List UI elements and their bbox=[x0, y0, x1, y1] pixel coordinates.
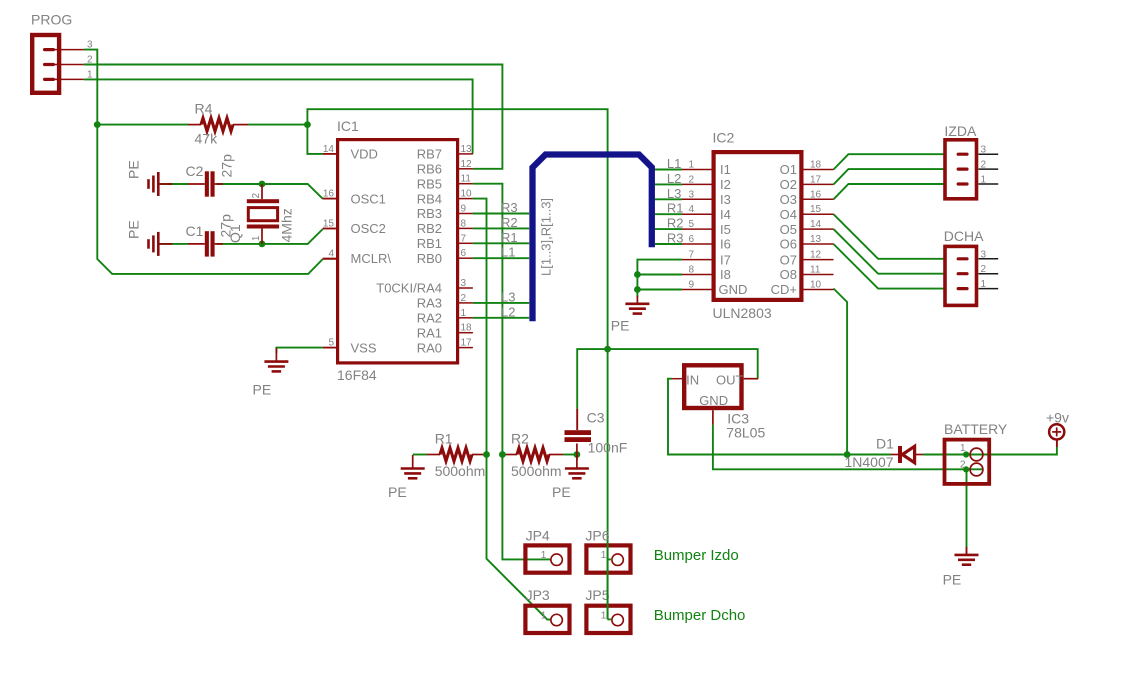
svg-text:L[1..3],R[1..3]: L[1..3],R[1..3] bbox=[539, 198, 554, 276]
svg-text:VSS: VSS bbox=[351, 340, 377, 355]
wire battery pin2 to PE ground bbox=[966, 469, 968, 555]
IC2 pin 6 I6 bbox=[682, 234, 731, 252]
svg-text:2: 2 bbox=[688, 174, 694, 185]
jumper JP4 box bbox=[525, 545, 569, 572]
crystal Q1 pin2 label bbox=[251, 193, 262, 199]
supply +9v symbol bbox=[1049, 424, 1064, 439]
svg-text:3: 3 bbox=[461, 278, 467, 289]
svg-text:I7: I7 bbox=[720, 252, 731, 267]
wire net RB5 pin11 down to R2 junction and JP4 bbox=[473, 184, 551, 560]
svg-text:JP3: JP3 bbox=[526, 587, 550, 603]
node label L1 at IC2 side bbox=[667, 156, 681, 171]
svg-text:I2: I2 bbox=[720, 177, 731, 192]
svg-text:1: 1 bbox=[87, 69, 93, 80]
wire net L1 (RB0 pin6 to bus) bbox=[473, 257, 529, 259]
wire O6 (pin13) to DCHA 1 bbox=[834, 244, 946, 289]
wire net L2 (RA2 pin1 to bus) bbox=[473, 317, 529, 319]
wire net VSS pin5 to ground bbox=[276, 348, 336, 353]
svg-text:C2: C2 bbox=[186, 163, 204, 179]
wire C3 bottom stub and ground stem bbox=[576, 444, 578, 461]
IC1 pin 5 VSS bbox=[323, 338, 377, 356]
wire O1 (pin18) to IZDA 3 bbox=[834, 154, 946, 169]
resistor R1 name bbox=[435, 431, 453, 447]
diode D1 name bbox=[876, 436, 894, 452]
svg-text:9: 9 bbox=[461, 204, 467, 215]
connector DCHA box bbox=[945, 246, 977, 305]
IC2 pin 15 O4 bbox=[780, 204, 834, 222]
wire net R1 (RB1 pin7 to bus) bbox=[473, 242, 529, 244]
svg-text:10: 10 bbox=[810, 280, 822, 291]
ground PE (C2) bbox=[149, 172, 173, 196]
svg-text:OUT: OUT bbox=[716, 372, 744, 387]
IC2 pin 16 O3 bbox=[780, 189, 834, 207]
IC3 pin IN bbox=[672, 373, 699, 388]
svg-text:JP5: JP5 bbox=[585, 587, 609, 603]
svg-text:I5: I5 bbox=[720, 222, 731, 237]
IC1 pin 18 RA1 bbox=[417, 323, 473, 341]
IC1 pin 1 RA2 bbox=[417, 308, 473, 326]
node label R1 at IC2 side bbox=[667, 201, 684, 216]
wire net PROG pin1 to RB7 (pin13) bbox=[84, 79, 473, 153]
wire net L3 bus to IC2 pin 3 bbox=[655, 198, 682, 200]
wire R1 left lead to ground bbox=[413, 454, 440, 456]
IC3 pin GND bbox=[699, 393, 728, 408]
svg-text:PE: PE bbox=[611, 318, 630, 334]
svg-text:L3: L3 bbox=[667, 186, 681, 201]
ground PE (battery) bbox=[955, 547, 979, 565]
svg-text:Bumper Dcho: Bumper Dcho bbox=[654, 607, 746, 624]
svg-text:O2: O2 bbox=[780, 177, 797, 192]
IC2 pin 12 O7 bbox=[780, 250, 834, 268]
jumper JP6 pin 1 bbox=[601, 550, 607, 561]
svg-text:PE: PE bbox=[943, 572, 962, 588]
ground PE (R2) bbox=[565, 455, 589, 478]
svg-text:2: 2 bbox=[87, 55, 93, 66]
wire net R3 (RB3 pin9 to bus) bbox=[473, 213, 529, 215]
resistor R1 value 500ohm bbox=[435, 463, 486, 479]
wire net VCC: R4 left lead from junction bbox=[97, 124, 201, 126]
crystal Q1 pin1 label bbox=[251, 235, 262, 241]
IC1 pin 10 RB4 bbox=[417, 189, 473, 207]
svg-text:O7: O7 bbox=[780, 252, 797, 267]
connector IZDA pad 3 bbox=[957, 145, 999, 156]
svg-text:4: 4 bbox=[688, 204, 694, 215]
IC1 pin 7 RB1 bbox=[417, 233, 473, 251]
IC2 pin 9 GND bbox=[682, 280, 747, 298]
svg-text:I1: I1 bbox=[720, 162, 731, 177]
junction dot VCC at R4 right bbox=[304, 121, 311, 128]
connector IZDA label bbox=[944, 123, 977, 139]
svg-text:500ohm: 500ohm bbox=[435, 463, 486, 479]
svg-text:100nF: 100nF bbox=[588, 440, 628, 456]
svg-text:O3: O3 bbox=[780, 192, 797, 207]
IC2 pin 5 I5 bbox=[682, 219, 731, 237]
IC1 value label 16F84 bbox=[337, 367, 377, 383]
svg-text:10: 10 bbox=[461, 189, 473, 200]
svg-text:I4: I4 bbox=[720, 207, 731, 222]
svg-text:11: 11 bbox=[810, 265, 821, 276]
jumper JP3 pin 1 bbox=[541, 610, 547, 621]
crystal Q1 symbol bbox=[247, 184, 279, 244]
wire net VCC: C3 top to OUT of IC3 bbox=[577, 349, 758, 430]
IC1 pin 4 MCLR\ bbox=[323, 248, 392, 266]
svg-text:R2: R2 bbox=[511, 431, 529, 447]
IC1 pin 17 RA0 bbox=[417, 338, 473, 356]
svg-text:14: 14 bbox=[810, 219, 822, 230]
resistor R2 value 500ohm bbox=[511, 463, 562, 479]
wire net VBAT: IC3 IN down and right to D1 bbox=[668, 379, 891, 455]
svg-text:R3: R3 bbox=[667, 231, 684, 246]
wire O4 (pin15) to DCHA 3 bbox=[834, 214, 946, 259]
node label L3 at IC1 side bbox=[501, 289, 515, 304]
node label R2 at IC1 side bbox=[501, 215, 518, 230]
diode D1 (1N4007) bbox=[898, 446, 915, 463]
svg-text:L1: L1 bbox=[501, 245, 515, 260]
ground PE (C2) label bbox=[126, 160, 142, 179]
svg-text:PROG: PROG bbox=[31, 12, 72, 28]
wire IC2 pins 7,8,9 to ground bbox=[637, 260, 682, 297]
jumper JP5 name bbox=[585, 587, 609, 603]
supply +9v label bbox=[1046, 409, 1069, 425]
svg-text:1: 1 bbox=[461, 308, 467, 319]
svg-text:I3: I3 bbox=[720, 192, 731, 207]
wire R2 right lead to C3 node bbox=[549, 454, 577, 456]
capacitor C3 bbox=[565, 430, 592, 442]
IC1 pin 9 RB3 bbox=[417, 204, 473, 222]
svg-text:11: 11 bbox=[461, 174, 472, 185]
svg-text:JP4: JP4 bbox=[526, 527, 550, 543]
svg-text:R3: R3 bbox=[501, 200, 518, 215]
IC2 pin 18 O1 bbox=[780, 160, 834, 178]
wire net L3 (RA3 pin2 to bus) bbox=[473, 302, 529, 304]
svg-text:7: 7 bbox=[461, 233, 467, 244]
jumper JP6 name bbox=[585, 527, 609, 543]
IC2 value label ULN2803 bbox=[713, 305, 772, 321]
svg-text:I6: I6 bbox=[720, 237, 731, 252]
wire net R2 (RB2 pin8 to bus) bbox=[473, 227, 529, 229]
wire net VCC: R4 right to VDD pin14 and down to JP6/JP5 bbox=[307, 109, 611, 619]
svg-text:12: 12 bbox=[461, 159, 473, 170]
svg-text:1: 1 bbox=[601, 610, 607, 621]
wire net R3 bus to IC2 pin 6 bbox=[655, 243, 682, 245]
svg-text:IC1: IC1 bbox=[337, 118, 359, 134]
svg-text:5: 5 bbox=[688, 219, 694, 230]
connector PROG box bbox=[32, 35, 59, 93]
svg-text:RB5: RB5 bbox=[417, 176, 442, 191]
jumper JP4 pin 1 bbox=[541, 550, 547, 561]
node label R2 at IC2 side bbox=[667, 216, 684, 231]
svg-text:13: 13 bbox=[810, 234, 822, 245]
svg-text:12: 12 bbox=[810, 250, 822, 261]
svg-text:I8: I8 bbox=[720, 267, 731, 282]
resistor R4 value 47k bbox=[195, 131, 219, 147]
wire net L2 bus to IC2 pin 2 bbox=[655, 183, 682, 185]
node label R3 at IC1 side bbox=[501, 200, 518, 215]
svg-text:RB3: RB3 bbox=[417, 206, 442, 221]
svg-text:R1: R1 bbox=[667, 201, 684, 216]
IC1 pin 2 RA3 bbox=[417, 293, 473, 311]
IC3 pin OUT bbox=[716, 372, 744, 387]
svg-text:O5: O5 bbox=[780, 222, 797, 237]
crystal Q1 name bbox=[227, 224, 243, 243]
wire net RB4 pin10 down to R1 junction and JP3 bbox=[473, 199, 551, 620]
svg-text:CD+: CD+ bbox=[771, 282, 797, 297]
IC2 pin 3 I3 bbox=[682, 189, 731, 207]
junction dot R2 left bbox=[499, 451, 506, 458]
svg-text:15: 15 bbox=[810, 204, 822, 215]
ground PE (R2) label bbox=[552, 484, 571, 500]
IC1 pin 8 RB2 bbox=[417, 218, 473, 236]
connector BATTERY pad 2 bbox=[960, 459, 983, 476]
svg-text:2: 2 bbox=[981, 160, 987, 171]
wire net PROG pin2 to RB6 (pin12) bbox=[84, 65, 503, 169]
wire VCC vertical through JP6 bbox=[607, 543, 609, 619]
IC2 name label bbox=[713, 130, 735, 146]
svg-text:RB6: RB6 bbox=[417, 162, 442, 177]
svg-text:1: 1 bbox=[981, 279, 987, 290]
jumper JP3 box bbox=[525, 606, 569, 633]
IC2 pin 13 O6 bbox=[780, 234, 834, 252]
resistor R2 bbox=[517, 448, 549, 461]
junction dot R1 right bbox=[483, 451, 490, 458]
regulator IC3 box (78L05) bbox=[684, 365, 741, 408]
svg-text:O1: O1 bbox=[780, 162, 797, 177]
IC1 pin 12 RB6 bbox=[417, 159, 473, 177]
ground PE (R1) bbox=[401, 455, 425, 478]
resistor R1 bbox=[440, 448, 472, 461]
svg-text:RA3: RA3 bbox=[417, 296, 442, 311]
svg-text:RA0: RA0 bbox=[417, 340, 442, 355]
wire net GND: IC3 GND pin to battery pin 2 bbox=[713, 410, 983, 469]
svg-text:MCLR\: MCLR\ bbox=[351, 251, 392, 266]
resistor R2 name bbox=[511, 431, 529, 447]
svg-text:VDD: VDD bbox=[351, 147, 378, 162]
svg-text:L1: L1 bbox=[667, 156, 681, 171]
svg-text:RA1: RA1 bbox=[417, 325, 442, 340]
ground PE (VSS) bbox=[264, 348, 288, 371]
ground PE (IC2) label bbox=[611, 318, 630, 334]
node label L2 at IC2 side bbox=[667, 171, 681, 186]
svg-text:7: 7 bbox=[688, 250, 694, 261]
IC1 pin 16 OSC1 bbox=[323, 189, 386, 207]
wire net OSC2: ground-C1-crystal1-pin15 bbox=[158, 229, 336, 244]
IC2 pin 11 O8 bbox=[780, 265, 834, 283]
svg-text:Q1: Q1 bbox=[227, 224, 243, 243]
node label R1 at IC1 side bbox=[501, 230, 518, 245]
svg-text:T0CKI/RA4: T0CKI/RA4 bbox=[376, 281, 442, 296]
svg-text:4: 4 bbox=[328, 248, 334, 259]
IC1 pin 3 T0CKI/RA4 bbox=[376, 278, 473, 296]
svg-text:1: 1 bbox=[251, 235, 262, 241]
node label L3 at IC2 side bbox=[667, 186, 681, 201]
capacitor C1 bbox=[188, 231, 223, 256]
ground PE (C1) bbox=[149, 232, 173, 256]
IC1 pin 15 OSC2 bbox=[323, 219, 386, 237]
svg-text:RB4: RB4 bbox=[417, 191, 442, 206]
svg-text:8: 8 bbox=[461, 218, 467, 229]
svg-text:3: 3 bbox=[981, 249, 987, 260]
svg-text:RB7: RB7 bbox=[417, 147, 442, 162]
IC2 pin 17 O2 bbox=[780, 174, 834, 192]
svg-text:47k: 47k bbox=[195, 131, 219, 147]
capacitor C3 name bbox=[587, 410, 605, 426]
svg-text:O6: O6 bbox=[780, 237, 797, 252]
node label L1 at IC1 side bbox=[501, 245, 515, 260]
ground PE (R1) label bbox=[388, 484, 407, 500]
junction dot PROG3/R4 node bbox=[94, 121, 101, 128]
svg-text:18: 18 bbox=[461, 323, 473, 334]
bus L[1..3],R[1..3] bbox=[533, 155, 652, 322]
svg-text:C1: C1 bbox=[186, 223, 204, 239]
ground PE (IC2) bbox=[625, 296, 649, 314]
svg-text:1: 1 bbox=[541, 610, 547, 621]
svg-text:1: 1 bbox=[601, 550, 607, 561]
wire O3 (pin16) to IZDA 1 bbox=[834, 184, 946, 199]
wire D1 to battery pin1 and +9v bbox=[923, 439, 1057, 454]
jumper JP4 name bbox=[526, 527, 550, 543]
svg-text:O4: O4 bbox=[780, 207, 797, 222]
svg-text:3: 3 bbox=[981, 145, 987, 156]
svg-text:14: 14 bbox=[323, 144, 335, 155]
svg-text:R1: R1 bbox=[435, 431, 453, 447]
wire net OSC1: ground-C2-crystal2-pin16 bbox=[158, 184, 336, 199]
junction dot OSC1 node bbox=[259, 181, 266, 188]
connector DCHA pad 2 bbox=[957, 264, 999, 275]
svg-text:16: 16 bbox=[810, 189, 822, 200]
svg-text:16F84: 16F84 bbox=[337, 367, 377, 383]
ground PE (battery) label bbox=[943, 572, 962, 588]
svg-text:PE: PE bbox=[126, 220, 142, 239]
svg-text:C3: C3 bbox=[587, 410, 605, 426]
capacitor C1 value 27p bbox=[218, 214, 234, 238]
svg-text:RA2: RA2 bbox=[417, 311, 442, 326]
connector PROG pad 2 bbox=[43, 55, 93, 67]
svg-text:Bumper Izdo: Bumper Izdo bbox=[654, 547, 739, 564]
svg-text:27p: 27p bbox=[219, 154, 235, 178]
svg-text:18: 18 bbox=[810, 160, 822, 171]
capacitor C2 bbox=[188, 171, 223, 196]
wire net CD+ pin10 of IC2 down to D1 node bbox=[834, 289, 848, 455]
svg-text:5: 5 bbox=[328, 338, 334, 349]
svg-text:PE: PE bbox=[552, 484, 571, 500]
svg-text:BATTERY: BATTERY bbox=[944, 421, 1008, 437]
svg-text:1: 1 bbox=[960, 443, 966, 454]
capacitor C2 value 27p bbox=[219, 154, 235, 178]
svg-text:JP6: JP6 bbox=[585, 527, 609, 543]
svg-text:2: 2 bbox=[960, 459, 966, 470]
svg-text:DCHA: DCHA bbox=[944, 228, 984, 244]
svg-text:17: 17 bbox=[810, 174, 822, 185]
svg-text:R2: R2 bbox=[667, 216, 684, 231]
IC3 value label 78L05 bbox=[726, 425, 765, 441]
svg-text:L3: L3 bbox=[501, 289, 515, 304]
svg-text:+9v: +9v bbox=[1046, 409, 1069, 425]
svg-text:3: 3 bbox=[87, 40, 93, 51]
svg-text:R4: R4 bbox=[195, 101, 213, 117]
svg-text:OSC1: OSC1 bbox=[351, 191, 386, 206]
op-amp IC1 box (16F84 PIC) bbox=[338, 140, 458, 363]
svg-text:2: 2 bbox=[251, 193, 262, 199]
svg-text:RB2: RB2 bbox=[417, 221, 442, 236]
connector DCHA pad 1 bbox=[957, 279, 999, 290]
svg-text:R2: R2 bbox=[501, 215, 518, 230]
capacitor C3 value 100nF bbox=[588, 440, 628, 456]
transistor-array IC2 box (ULN2803) bbox=[714, 152, 802, 300]
connector DCHA label bbox=[944, 228, 984, 244]
junction dot R2 right / C3 bottom bbox=[574, 451, 581, 458]
jumper JP6 box bbox=[586, 545, 630, 572]
resistor R4 name bbox=[195, 101, 213, 117]
svg-text:15: 15 bbox=[323, 219, 335, 230]
connector IZDA box bbox=[945, 140, 977, 199]
capacitor C2 name bbox=[186, 163, 204, 179]
node label L2 at IC1 side bbox=[501, 304, 515, 319]
svg-text:2: 2 bbox=[461, 293, 467, 304]
wire R2 left lead node bbox=[502, 454, 517, 456]
connector BATTERY label bbox=[944, 421, 1008, 437]
svg-text:6: 6 bbox=[461, 248, 467, 259]
svg-text:GND: GND bbox=[719, 282, 748, 297]
connector PROG label bbox=[31, 12, 72, 28]
wire R1 right lead to RB4 node bbox=[472, 454, 487, 456]
IC2 pin 1 I1 bbox=[682, 160, 731, 178]
wire R4 right lead to junction bbox=[248, 124, 307, 126]
svg-text:IC2: IC2 bbox=[713, 130, 735, 146]
IC2 pin 7 I7 bbox=[682, 250, 731, 268]
svg-text:IN: IN bbox=[686, 373, 699, 388]
diode D1 value 1N4007 bbox=[845, 454, 894, 470]
ground PE (C1) label bbox=[126, 220, 142, 239]
svg-text:L2: L2 bbox=[501, 304, 515, 319]
IC1 name label bbox=[337, 118, 359, 134]
jumper JP5 box bbox=[586, 606, 630, 633]
IC2 pin 8 I8 bbox=[682, 265, 731, 283]
wire D1 leads bbox=[891, 454, 923, 456]
connector IZDA pad 2 bbox=[957, 160, 999, 171]
wire net R1 bus to IC2 pin 4 bbox=[655, 213, 682, 215]
svg-text:13: 13 bbox=[461, 144, 473, 155]
svg-text:16: 16 bbox=[323, 189, 335, 200]
svg-text:ULN2803: ULN2803 bbox=[713, 305, 772, 321]
crystal Q1 value 4Mhz bbox=[279, 208, 295, 242]
svg-text:RB1: RB1 bbox=[417, 236, 442, 251]
IC2 pin 10 CD+ bbox=[771, 280, 834, 298]
wire O5 (pin14) to DCHA 2 bbox=[834, 229, 946, 274]
svg-text:L2: L2 bbox=[667, 171, 681, 186]
IC1 pin 6 RB0 bbox=[417, 248, 473, 266]
svg-text:6: 6 bbox=[688, 234, 694, 245]
svg-text:1N4007: 1N4007 bbox=[845, 454, 894, 470]
svg-text:17: 17 bbox=[461, 338, 473, 349]
wire net PROG pin3 to MCLR\ (vertical x=97) and to R4 bbox=[84, 50, 336, 274]
IC1 pin 13 RB7 bbox=[417, 144, 473, 162]
capacitor C1 name bbox=[186, 223, 204, 239]
junction dot VCC vertical x C3/OUT wire bbox=[604, 346, 611, 353]
junction dot D1/IN/CD+ node bbox=[844, 451, 851, 458]
junction dot OSC2 node bbox=[259, 241, 266, 248]
IC1 pin 14 VDD bbox=[323, 144, 378, 162]
node label Bumper Izdo bbox=[654, 547, 739, 564]
junction dot IC2 pin9 gnd bbox=[634, 286, 641, 293]
svg-text:D1: D1 bbox=[876, 436, 894, 452]
svg-text:3: 3 bbox=[688, 189, 694, 200]
svg-text:GND: GND bbox=[699, 393, 728, 408]
svg-text:RB0: RB0 bbox=[417, 251, 442, 266]
svg-text:R1: R1 bbox=[501, 230, 518, 245]
svg-text:O8: O8 bbox=[780, 267, 797, 282]
svg-text:PE: PE bbox=[126, 160, 142, 179]
wire net L1 bus to IC2 pin 1 bbox=[655, 169, 682, 171]
